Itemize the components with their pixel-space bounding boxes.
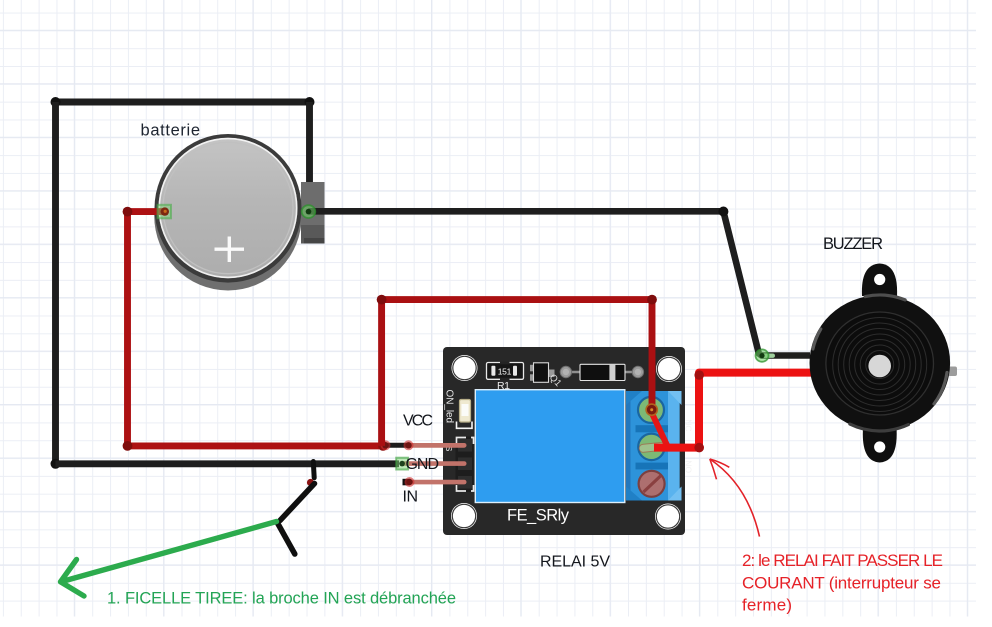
wire: thick red from NO terminal to buzzer bbox=[654, 370, 813, 452]
buzzer bottom mounting tab bbox=[863, 428, 897, 463]
relay mounting holes bbox=[451, 355, 682, 530]
transistor Q1 bbox=[530, 363, 555, 383]
wire: red from NC screw down-right (switch closed) bbox=[652, 413, 668, 447]
svg-text:batterie: batterie bbox=[141, 122, 201, 140]
wire: black loop right vertical to battery negative bbox=[306, 102, 313, 209]
wire: broken IN wire segment 2 bbox=[280, 484, 315, 521]
LED on relay board bbox=[457, 400, 473, 429]
wire: broken IN wire segment 3 bbox=[278, 523, 295, 554]
relay pin header block bbox=[456, 437, 474, 493]
wire: broken IN wire segment 1 bbox=[311, 462, 317, 478]
buzzer right nub bbox=[948, 367, 957, 377]
wire: red battery positive to junction (VCC net) bbox=[123, 207, 383, 451]
node: buzzer pin connector (green) bbox=[756, 349, 776, 361]
svg-text:IN: IN bbox=[403, 489, 419, 506]
svg-text:ferme): ferme) bbox=[742, 596, 792, 615]
annotation: green arrow (string pulled) bbox=[61, 522, 277, 597]
wire: black from battery negative to buzzer bbox=[309, 207, 811, 356]
svg-text:NC: NC bbox=[684, 419, 694, 431]
terminal screw COM bbox=[639, 471, 665, 497]
wire: black loop left vertical bbox=[52, 102, 59, 464]
svg-text:BUZZER: BUZZER bbox=[823, 235, 883, 253]
node: battery negative connector bbox=[302, 205, 316, 218]
wire: black loop top horizontal (battery - net) bbox=[51, 97, 315, 107]
node: GND pin connector (green) bbox=[396, 458, 408, 470]
annotation text 2 (red) bbox=[742, 551, 943, 615]
svg-text:GND: GND bbox=[406, 456, 440, 473]
svg-text:1. FICELLE TIREE: la broche IN: 1. FICELLE TIREE: la broche IN est débra… bbox=[107, 590, 456, 608]
buzzer top mounting tab bbox=[862, 264, 897, 297]
svg-text:VCC: VCC bbox=[403, 413, 433, 430]
terminal block bbox=[626, 391, 682, 501]
svg-text:ON_led: ON_led bbox=[444, 390, 455, 424]
wire end cap at NC screw bbox=[646, 404, 657, 415]
buzzer PZ1 body bbox=[810, 295, 951, 431]
svg-text:151: 151 bbox=[498, 367, 512, 377]
svg-text:2: le RELAI FAIT PASSER LE: 2: le RELAI FAIT PASSER LE bbox=[742, 551, 943, 570]
annotation: red curved arrow bbox=[710, 459, 760, 537]
terminal screw NC bbox=[638, 397, 664, 423]
wire: red riser from junction over relay to NC terminal bbox=[377, 295, 657, 446]
terminal screw NO bbox=[638, 434, 665, 460]
svg-text:COURANT (interrupteur se: COURANT (interrupteur se bbox=[742, 574, 941, 593]
IN pin female end (disconnected) bbox=[403, 477, 415, 487]
broken wire end cap bbox=[307, 479, 314, 486]
diode D1 with pads bbox=[560, 364, 643, 380]
resistor R1 (value 151) bbox=[487, 362, 524, 381]
relay module FE_SRly : PCB bbox=[443, 347, 685, 535]
svg-text:RELAI 5V: RELAI 5V bbox=[540, 554, 610, 571]
battery BT1 (coin cell) bbox=[154, 134, 302, 291]
wire: short black jumper into VCC pin bbox=[381, 440, 414, 450]
battery holder tab bbox=[301, 182, 325, 244]
node: battery positive connector bbox=[158, 205, 172, 219]
wire: black bottom horizontal to relay GND pin bbox=[51, 459, 400, 469]
node: junction dot on red wire bbox=[378, 441, 388, 451]
relay (blue box) bbox=[475, 390, 625, 503]
battery plus symbol bbox=[215, 237, 245, 263]
relay pin stub GND bbox=[402, 461, 467, 466]
svg-text:NO: NO bbox=[684, 460, 694, 473]
relay pin stub VCC bbox=[408, 443, 467, 448]
relay pin stub IN bbox=[409, 480, 467, 485]
svg-text:FE_SRly: FE_SRly bbox=[507, 507, 570, 525]
